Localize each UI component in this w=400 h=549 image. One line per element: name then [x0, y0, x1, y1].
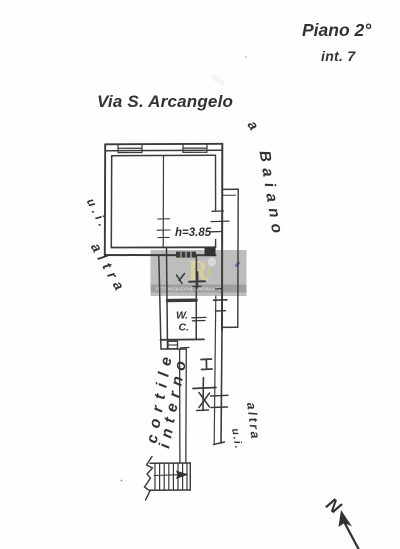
wall junction blob bottom right of main room: [205, 248, 216, 257]
faint smudge under street name: [210, 73, 227, 87]
svg-text:h=3.85: h=3.85: [175, 227, 212, 239]
right wall crossing dash y300: [214, 299, 228, 301]
symbol I near door: [201, 359, 212, 370]
right wall crossing dash y311: [216, 310, 226, 312]
balcony top inner short line: [222, 194, 235, 196]
top wall second line: [105, 149, 222, 152]
inner right wall upper segment: [215, 155, 217, 211]
wc top partition: [168, 299, 197, 303]
watermark blue mark: [235, 261, 241, 267]
main room outer bottom wall: [105, 254, 216, 256]
partition door tick 2: [157, 229, 170, 231]
door mark vertical stroke: [196, 272, 198, 288]
main room outer left wall: [104, 144, 106, 255]
door mark horizontal dash: [189, 280, 205, 283]
north arrow shaft: [345, 524, 359, 549]
balcony right edge: [237, 189, 239, 327]
crossing dash y407: [211, 406, 228, 409]
balcony top edge: [222, 188, 238, 190]
hallway outer left wall: [159, 255, 161, 349]
stair steps: [155, 463, 187, 490]
right wall door tick low: [211, 231, 222, 233]
right wall tick at door top: [212, 210, 224, 212]
hatched dark segment on bottom wall: [176, 252, 196, 258]
small window box below wc: [168, 341, 178, 349]
corridor top tick: [181, 347, 190, 349]
right lower wall inner: [214, 296, 216, 443]
stairs arrowhead: [176, 471, 189, 480]
svg-text:int. 7: int. 7: [321, 48, 356, 64]
svg-text:Piano 2°: Piano 2°: [302, 20, 372, 40]
stairs direction arrow shaft: [154, 474, 177, 477]
right wall tick y288: [216, 288, 222, 290]
hallway right wall: [195, 256, 197, 340]
watermark logo monogram: [188, 256, 216, 287]
faint dot top center: [245, 56, 247, 58]
partition door tick 3: [158, 236, 169, 238]
wc bottom wall: [161, 338, 205, 340]
svg-text:Via S. Arcangelo: Via S. Arcangelo: [97, 92, 233, 111]
balcony bottom edge: [222, 326, 238, 328]
stairs break zigzag: [145, 457, 153, 501]
staircase: [145, 457, 191, 501]
crossing dash y395: [211, 394, 229, 397]
main room inner bottom wall: [111, 246, 215, 248]
right wall door tick mid: [211, 220, 229, 223]
door swing mark K in hallway: [177, 274, 185, 284]
main room outer right wall: [221, 144, 223, 330]
svg-text:W.: W.: [176, 310, 188, 322]
partition door tick 1: [158, 218, 170, 220]
corridor left wall: [179, 349, 181, 462]
stairs right edge: [189, 463, 191, 490]
north arrowhead: [339, 510, 353, 527]
wall end dash: [214, 442, 225, 445]
right lower wall outer: [221, 330, 222, 443]
window 2 frame: [183, 144, 207, 153]
faint speck left of stairs: [121, 480, 123, 482]
window 1 frame: [118, 144, 142, 153]
stairs bottom edge: [150, 489, 191, 491]
main room inner top wall: [112, 154, 216, 157]
corridor right wall: [185, 349, 188, 463]
svg-text:C.: C.: [179, 322, 190, 334]
watermark bottom bar: [151, 285, 247, 293]
main room inner left wall: [110, 156, 112, 248]
watermark box: [151, 250, 247, 296]
inner right wall lower stub: [215, 240, 217, 248]
main room outer top wall: [105, 143, 222, 146]
partition wall between rooms: [162, 156, 164, 248]
stairs top edge: [150, 462, 190, 464]
wc door ticks: [192, 317, 206, 320]
hallway inner left wall: [167, 248, 168, 350]
lower step line: [161, 348, 186, 350]
door cross mark (asterisk): [193, 378, 216, 411]
svg-text:RETE MEDIAZIONE IMMOBILIARE: RETE MEDIAZIONE IMMOBILIARE: [156, 287, 222, 292]
